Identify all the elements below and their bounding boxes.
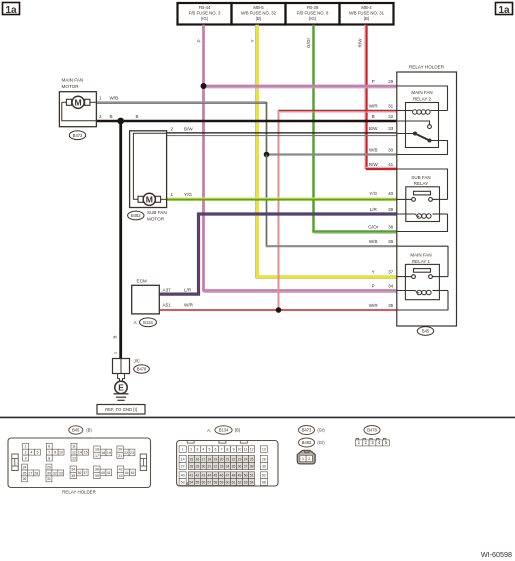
svg-text:38: 38 [388, 225, 394, 230]
page tab 1a top-right [496, 3, 513, 15]
svg-text:Y/G: Y/G [184, 192, 192, 197]
svg-text:1a: 1a [498, 5, 510, 16]
connector view B478 header [364, 426, 380, 435]
svg-text:30: 30 [47, 471, 51, 475]
fuse FB-38 [286, 3, 340, 25]
B45 pin cluster 20-23 [117, 446, 123, 452]
wire W/B to pin 30 [267, 153, 397, 155]
junction P [201, 83, 207, 89]
svg-text:20: 20 [118, 447, 122, 451]
B45 right lock [140, 454, 146, 471]
svg-text:39: 39 [95, 474, 99, 478]
wire G/Or from FB-38 (vertical) [312, 25, 315, 232]
svg-text:B134: B134 [219, 428, 229, 433]
svg-text:1: 1 [171, 192, 174, 197]
B45 pin cluster 42-45 [117, 466, 123, 472]
main fan relay 1 contact bar [414, 269, 431, 273]
main fan relay 1 inner box [405, 264, 439, 299]
svg-text:10: 10 [238, 447, 242, 451]
svg-text:MAIN FAN: MAIN FAN [62, 78, 84, 83]
svg-text:34: 34 [388, 284, 394, 289]
svg-text:27: 27 [28, 471, 32, 475]
svg-text:33: 33 [388, 126, 394, 131]
svg-text:29: 29 [195, 464, 199, 468]
svg-text:11: 11 [72, 445, 76, 449]
svg-text:25: 25 [250, 457, 254, 461]
svg-text:B: B [110, 114, 113, 119]
svg-text:45: 45 [131, 471, 135, 475]
connector view B134 body [177, 441, 278, 487]
B134 top tabs [187, 441, 194, 444]
svg-text:57: 57 [208, 480, 212, 484]
sub fan relay label box [397, 169, 448, 199]
svg-text:64: 64 [250, 480, 254, 484]
wire B main fan motor pin 2 to pin 32 [96, 120, 396, 123]
svg-text:42: 42 [119, 467, 123, 471]
svg-text:29: 29 [388, 79, 394, 84]
sub fan motor B482 [130, 131, 167, 208]
svg-text:32: 32 [388, 114, 394, 119]
B134 pin row 1-13 [179, 446, 186, 453]
svg-text:25: 25 [22, 471, 26, 475]
svg-text:ECM: ECM [137, 279, 147, 284]
svg-text:B482: B482 [131, 213, 141, 218]
svg-text:FB-38: FB-38 [307, 5, 319, 10]
svg-text:10: 10 [59, 450, 63, 454]
svg-text:36: 36 [238, 464, 242, 468]
svg-text:B478: B478 [367, 428, 377, 433]
svg-text:1: 1 [99, 95, 102, 100]
svg-text:50: 50 [244, 474, 248, 478]
svg-text:J/C: J/C [134, 359, 141, 364]
main fan relay 2 blade (pin 33) [397, 133, 415, 135]
svg-text:SUB FAN: SUB FAN [411, 175, 430, 180]
svg-text:55: 55 [195, 480, 199, 484]
svg-text:15: 15 [84, 450, 88, 454]
svg-text:L/R: L/R [184, 288, 192, 293]
main fan relay 2 fixed contact (pin 32) [397, 121, 430, 125]
svg-text:52: 52 [262, 474, 266, 478]
wire Y to pin 37 [256, 277, 397, 279]
svg-text:24: 24 [244, 457, 248, 461]
svg-text:Y: Y [372, 270, 375, 275]
svg-text:(Gr): (Gr) [317, 428, 325, 433]
svg-text:G/Or: G/Or [368, 225, 378, 230]
svg-text:53: 53 [181, 480, 185, 484]
svg-text:26: 26 [22, 477, 26, 481]
main fan relay 2 switch out to pin 30 [397, 141, 448, 155]
wire B/W sub fan motor pin 2 to pin 33 [167, 132, 397, 134]
svg-text:FB-44: FB-44 [199, 5, 211, 10]
svg-text:23: 23 [238, 457, 242, 461]
connector view B473/B482 body (2 pin) [297, 451, 315, 464]
svg-text:M: M [146, 194, 153, 204]
svg-text:27: 27 [181, 464, 185, 468]
svg-text:W/R: W/R [369, 303, 379, 308]
svg-text:60: 60 [226, 480, 230, 484]
sub fan relay coil [397, 213, 416, 215]
svg-text:14: 14 [78, 450, 82, 454]
svg-text:2: 2 [25, 450, 27, 454]
connector ellipse B45 [417, 327, 433, 336]
svg-text:L/R: L/R [370, 207, 378, 212]
svg-text:30: 30 [201, 464, 205, 468]
sub fan relay coil out to pin 38 [397, 214, 448, 232]
svg-text:14: 14 [181, 457, 185, 461]
svg-text:A:: A: [207, 428, 211, 433]
svg-text:37: 37 [244, 464, 248, 468]
svg-text:21: 21 [118, 454, 122, 458]
svg-text:B482: B482 [302, 440, 312, 445]
wire W/R ECM A51 to pin 35 [159, 309, 396, 311]
wire Y from MB-5 (vertical) [255, 25, 257, 279]
svg-text:36: 36 [77, 471, 81, 475]
svg-text:13: 13 [72, 456, 76, 460]
svg-text:6: 6 [48, 445, 50, 449]
svg-text:30: 30 [388, 148, 394, 153]
svg-text:RELAY 2: RELAY 2 [413, 96, 432, 101]
svg-text:5: 5 [36, 450, 38, 454]
svg-text:39: 39 [388, 207, 394, 212]
svg-text:(B): (B) [256, 16, 262, 21]
svg-text:40: 40 [181, 474, 185, 478]
svg-text:Y: Y [250, 39, 255, 42]
junction W/R [276, 307, 282, 313]
svg-text:MOTOR: MOTOR [147, 217, 165, 222]
svg-text:(IG): (IG) [201, 16, 209, 21]
svg-text:W/R: W/R [184, 302, 194, 307]
svg-text:40: 40 [101, 471, 105, 475]
svg-text:32: 32 [53, 471, 57, 475]
svg-text:1: 1 [25, 445, 27, 449]
svg-text:28: 28 [34, 471, 38, 475]
main fan relay 1 contacts [397, 276, 412, 278]
B45 pin cluster 11-15 [71, 443, 77, 449]
svg-text:22: 22 [124, 451, 128, 455]
main fan motor B473 [59, 92, 96, 127]
wire R/W to pin 41 [366, 168, 397, 170]
svg-text:MB-4: MB-4 [361, 5, 372, 10]
svg-text:15: 15 [189, 457, 193, 461]
connector view B45 body [8, 438, 151, 488]
svg-text:23: 23 [130, 451, 134, 455]
svg-text:66: 66 [262, 480, 266, 484]
svg-text:35: 35 [232, 464, 236, 468]
B45 pin cluster 1-5 [23, 443, 29, 449]
svg-text:31: 31 [208, 464, 212, 468]
svg-text:8: 8 [227, 447, 229, 451]
sub fan relay inner box [406, 187, 440, 222]
svg-text:RELAY: RELAY [414, 181, 428, 186]
svg-text:49: 49 [238, 474, 242, 478]
svg-text:B: B [113, 335, 118, 338]
sub fan relay contact bar [414, 191, 431, 195]
svg-text:P: P [197, 39, 202, 42]
svg-text:62: 62 [238, 480, 242, 484]
svg-text:17: 17 [95, 454, 99, 458]
svg-text:45: 45 [214, 474, 218, 478]
svg-text:B/W: B/W [369, 126, 378, 131]
connector ellipse B482 [128, 211, 144, 220]
sub fan relay contacts [397, 198, 412, 200]
svg-text:9: 9 [233, 447, 235, 451]
ECM B134 [132, 285, 160, 314]
svg-text:13: 13 [262, 447, 266, 451]
svg-text:18: 18 [208, 457, 212, 461]
svg-text:M/B FUSE NO. 32: M/B FUSE NO. 32 [241, 11, 277, 16]
svg-text:38: 38 [95, 467, 99, 471]
svg-text:33: 33 [220, 464, 224, 468]
svg-text:41: 41 [189, 474, 193, 478]
svg-text:(Gr): (Gr) [317, 440, 325, 445]
B134 pin rows 14-39 [179, 455, 186, 462]
svg-text:7: 7 [221, 447, 223, 451]
fuse FB-44 [178, 3, 232, 25]
svg-text:31: 31 [388, 104, 394, 109]
B45 pin cluster 24-28 [22, 464, 28, 470]
svg-text:9: 9 [54, 450, 56, 454]
svg-text:3: 3 [25, 456, 27, 460]
svg-text:44: 44 [208, 474, 212, 478]
svg-text:B45: B45 [422, 329, 430, 334]
svg-text:19: 19 [107, 451, 111, 455]
svg-text:5: 5 [208, 447, 210, 451]
svg-text:(B): (B) [364, 16, 370, 21]
svg-text:33: 33 [59, 471, 63, 475]
svg-text:W/B: W/B [110, 95, 119, 100]
svg-text:B: B [136, 114, 139, 119]
B134 pin rows 40-66 [179, 472, 186, 479]
svg-text:SUB FAN: SUB FAN [147, 210, 167, 215]
B45 pin cluster 16-19 [94, 446, 100, 452]
svg-text:39: 39 [262, 464, 266, 468]
main fan relay 2 label box [397, 86, 448, 111]
svg-text:16: 16 [95, 447, 99, 451]
svg-text:12: 12 [72, 450, 76, 454]
svg-text:7: 7 [48, 450, 50, 454]
svg-text:W/R: W/R [369, 104, 379, 109]
wire Y/G sub fan motor pin 1 to pin 40 [167, 197, 397, 199]
svg-text:(B): (B) [86, 428, 92, 433]
svg-text:21: 21 [226, 457, 230, 461]
connector ellipse B473 [69, 131, 85, 140]
wire P from FB-44 (vertical) [202, 25, 205, 291]
svg-text:41: 41 [388, 162, 394, 167]
svg-text:B/W: B/W [184, 127, 193, 132]
ground hatching [114, 393, 129, 395]
junction W/B [264, 152, 270, 158]
svg-text:32: 32 [214, 464, 218, 468]
svg-text:48: 48 [232, 474, 236, 478]
svg-text:40: 40 [388, 191, 394, 196]
svg-text:W/B: W/B [369, 239, 378, 244]
svg-text:26: 26 [262, 457, 266, 461]
svg-text:RELAY 1: RELAY 1 [412, 259, 431, 264]
svg-text:RELAY HOLDER: RELAY HOLDER [62, 490, 96, 495]
wire G/Or to pin 38 [312, 230, 397, 233]
page tab 1a top-left [3, 3, 20, 15]
main fan relay 1 coil out to pin 35 [397, 291, 448, 311]
svg-text:16: 16 [195, 457, 199, 461]
B45 pin cluster 6-10 [46, 443, 52, 449]
svg-text:MAIN FAN: MAIN FAN [410, 252, 431, 257]
svg-text:36: 36 [388, 239, 394, 244]
ground E [115, 381, 127, 393]
svg-text:B473: B473 [302, 428, 312, 433]
fuse MB-5 [232, 3, 286, 25]
svg-text:43: 43 [201, 474, 205, 478]
svg-text:34: 34 [226, 464, 230, 468]
svg-text:29: 29 [47, 465, 51, 469]
relay holder B45 outer box [397, 72, 457, 326]
svg-text:2: 2 [171, 127, 174, 132]
svg-text:W/B: W/B [369, 148, 378, 153]
svg-text:28: 28 [189, 464, 193, 468]
wire P to pin 34 [202, 289, 396, 292]
svg-text:59: 59 [220, 480, 224, 484]
svg-text:(IG): (IG) [309, 16, 317, 21]
svg-text:MAIN FAN: MAIN FAN [411, 90, 432, 95]
svg-text:35: 35 [71, 474, 75, 478]
svg-text:B: B [372, 114, 375, 119]
separator line [0, 416, 515, 418]
svg-text:42: 42 [195, 474, 199, 478]
svg-text:P: P [372, 79, 375, 84]
wire W/B from main fan motor pin 1 [96, 101, 266, 103]
svg-text:35: 35 [388, 303, 394, 308]
svg-text:MB-5: MB-5 [253, 5, 264, 10]
connector ellipse B478 [134, 365, 150, 373]
svg-text:MOTOR: MOTOR [62, 84, 80, 89]
svg-text:REF. TO GND [I]: REF. TO GND [I] [105, 407, 137, 412]
svg-text:31: 31 [47, 477, 51, 481]
svg-text:46: 46 [220, 474, 224, 478]
svg-text:4: 4 [202, 447, 204, 451]
svg-text:20: 20 [220, 457, 224, 461]
svg-text:E: E [118, 383, 124, 393]
svg-text:F/B FUSE NO. 8: F/B FUSE NO. 8 [297, 11, 329, 16]
connector view B482 header [299, 438, 315, 447]
svg-text:41: 41 [107, 471, 111, 475]
svg-text:11: 11 [244, 447, 248, 451]
svg-text:43: 43 [119, 474, 123, 478]
svg-text:A37: A37 [163, 288, 172, 293]
B45 left lock [12, 454, 18, 471]
junction B [117, 118, 124, 125]
connector view B473 header [299, 426, 315, 435]
svg-text:51: 51 [250, 474, 254, 478]
svg-text:1a: 1a [5, 5, 17, 16]
B134 bottom tabs [187, 483, 194, 486]
svg-text:1: 1 [182, 447, 184, 451]
svg-text:RELAY HOLDER: RELAY HOLDER [409, 65, 445, 70]
ref to gnd box [97, 405, 145, 415]
joint connector J/C B478 [113, 359, 130, 374]
main fan relay 2 inner box [406, 103, 439, 148]
B45 pin cluster 34-37 [70, 466, 76, 472]
connector view B478 body (5 pin) [356, 439, 359, 441]
svg-text:M: M [75, 97, 82, 107]
wire B to ground J/C [119, 121, 122, 359]
svg-text:4: 4 [31, 450, 33, 454]
B45 pin cluster 29-33 [46, 464, 52, 470]
svg-text:8: 8 [48, 456, 50, 460]
main fan relay 1 coil [397, 290, 416, 292]
connector view B45 header [69, 426, 83, 434]
svg-text:44: 44 [125, 471, 129, 475]
svg-text:61: 61 [232, 480, 236, 484]
svg-text:2: 2 [99, 114, 102, 119]
svg-text:A:: A: [134, 320, 138, 325]
svg-text:54: 54 [189, 480, 193, 484]
svg-text:12: 12 [250, 447, 254, 451]
svg-text:B134: B134 [143, 320, 153, 325]
svg-text:3: 3 [196, 447, 198, 451]
svg-text:B478: B478 [137, 367, 147, 372]
main fan relay 1 label box [397, 246, 448, 276]
svg-text:WI-60598: WI-60598 [481, 550, 512, 559]
svg-text:17: 17 [201, 457, 205, 461]
wire W/R to pin 31 [279, 110, 397, 112]
svg-text:B473: B473 [73, 133, 83, 138]
svg-text:56: 56 [201, 480, 205, 484]
svg-text:G/Or: G/Or [306, 38, 311, 48]
ground stub [118, 374, 125, 382]
svg-text:19: 19 [214, 457, 218, 461]
B45 pin cluster 38-41 [94, 466, 100, 472]
svg-text:58: 58 [214, 480, 218, 484]
fuse MB-4 [340, 3, 394, 25]
wire P to pin 29 [204, 85, 397, 88]
svg-text:A51: A51 [163, 302, 172, 307]
svg-text:R/W: R/W [369, 162, 379, 167]
svg-text:24: 24 [22, 465, 26, 469]
svg-text:M/B FUSE NO. 31: M/B FUSE NO. 31 [349, 11, 385, 16]
svg-text:Y/G: Y/G [369, 191, 377, 196]
wire L/R ECM A37 to pin 39 [159, 214, 396, 294]
svg-text:47: 47 [226, 474, 230, 478]
svg-text:B45: B45 [72, 428, 80, 433]
svg-text:F/B FUSE NO. 3: F/B FUSE NO. 3 [189, 11, 221, 16]
svg-text:6: 6 [214, 447, 216, 451]
wire W/R vertical [278, 111, 280, 311]
svg-text:2: 2 [190, 447, 192, 451]
svg-text:63: 63 [244, 480, 248, 484]
svg-text:37: 37 [83, 471, 87, 475]
svg-text:37: 37 [388, 270, 394, 275]
svg-text:(B): (B) [235, 428, 241, 433]
svg-text:18: 18 [101, 451, 105, 455]
svg-text:P: P [372, 284, 375, 289]
main fan relay 2 coil [397, 110, 413, 112]
svg-text:38: 38 [250, 464, 254, 468]
svg-text:34: 34 [71, 467, 75, 471]
svg-text:22: 22 [232, 457, 236, 461]
svg-text:R/W: R/W [358, 38, 363, 48]
wire R/W from MB-4 (vertical) [364, 25, 366, 169]
wire W/B to pin 36 [266, 155, 268, 247]
